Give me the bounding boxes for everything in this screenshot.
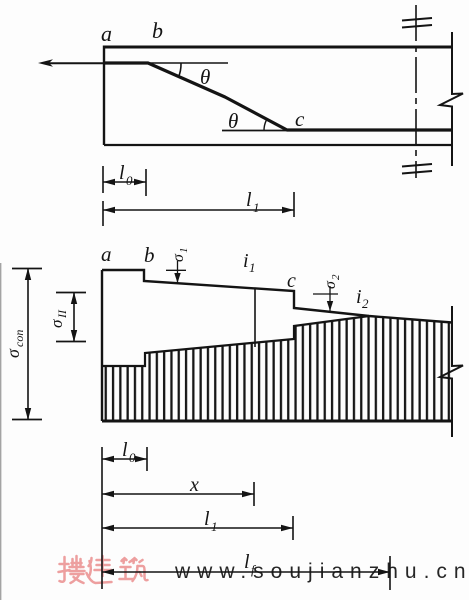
svg-text:con: con: [12, 330, 26, 347]
svg-text:σ: σ: [170, 253, 187, 262]
svg-text:i: i: [243, 250, 249, 272]
svg-text:0: 0: [126, 173, 133, 188]
svg-text:1: 1: [178, 248, 190, 254]
svg-text:0: 0: [129, 450, 136, 465]
svg-text:c: c: [295, 107, 305, 131]
svg-text:l: l: [246, 189, 252, 211]
svg-text:σ: σ: [3, 348, 23, 358]
svg-text:l: l: [119, 162, 125, 184]
svg-text:σ: σ: [322, 280, 339, 289]
svg-text:i: i: [356, 286, 362, 308]
svg-text:a: a: [101, 242, 112, 266]
svg-text:b: b: [152, 18, 163, 43]
svg-text:a: a: [101, 21, 112, 46]
svg-text:θ: θ: [200, 65, 210, 89]
svg-text:l: l: [204, 508, 210, 530]
svg-text:2: 2: [330, 274, 342, 280]
svg-text:II: II: [55, 309, 69, 319]
svg-text:c: c: [287, 270, 296, 292]
svg-text:1: 1: [249, 260, 256, 275]
svg-text:σ: σ: [47, 319, 66, 328]
svg-text:2: 2: [362, 296, 369, 311]
svg-text:1: 1: [253, 200, 260, 215]
svg-text:θ: θ: [228, 109, 238, 133]
svg-text:l: l: [244, 551, 250, 573]
svg-text:l: l: [122, 439, 128, 461]
svg-text:b: b: [144, 243, 155, 267]
svg-text:x: x: [189, 474, 199, 496]
svg-text:1: 1: [211, 519, 218, 534]
